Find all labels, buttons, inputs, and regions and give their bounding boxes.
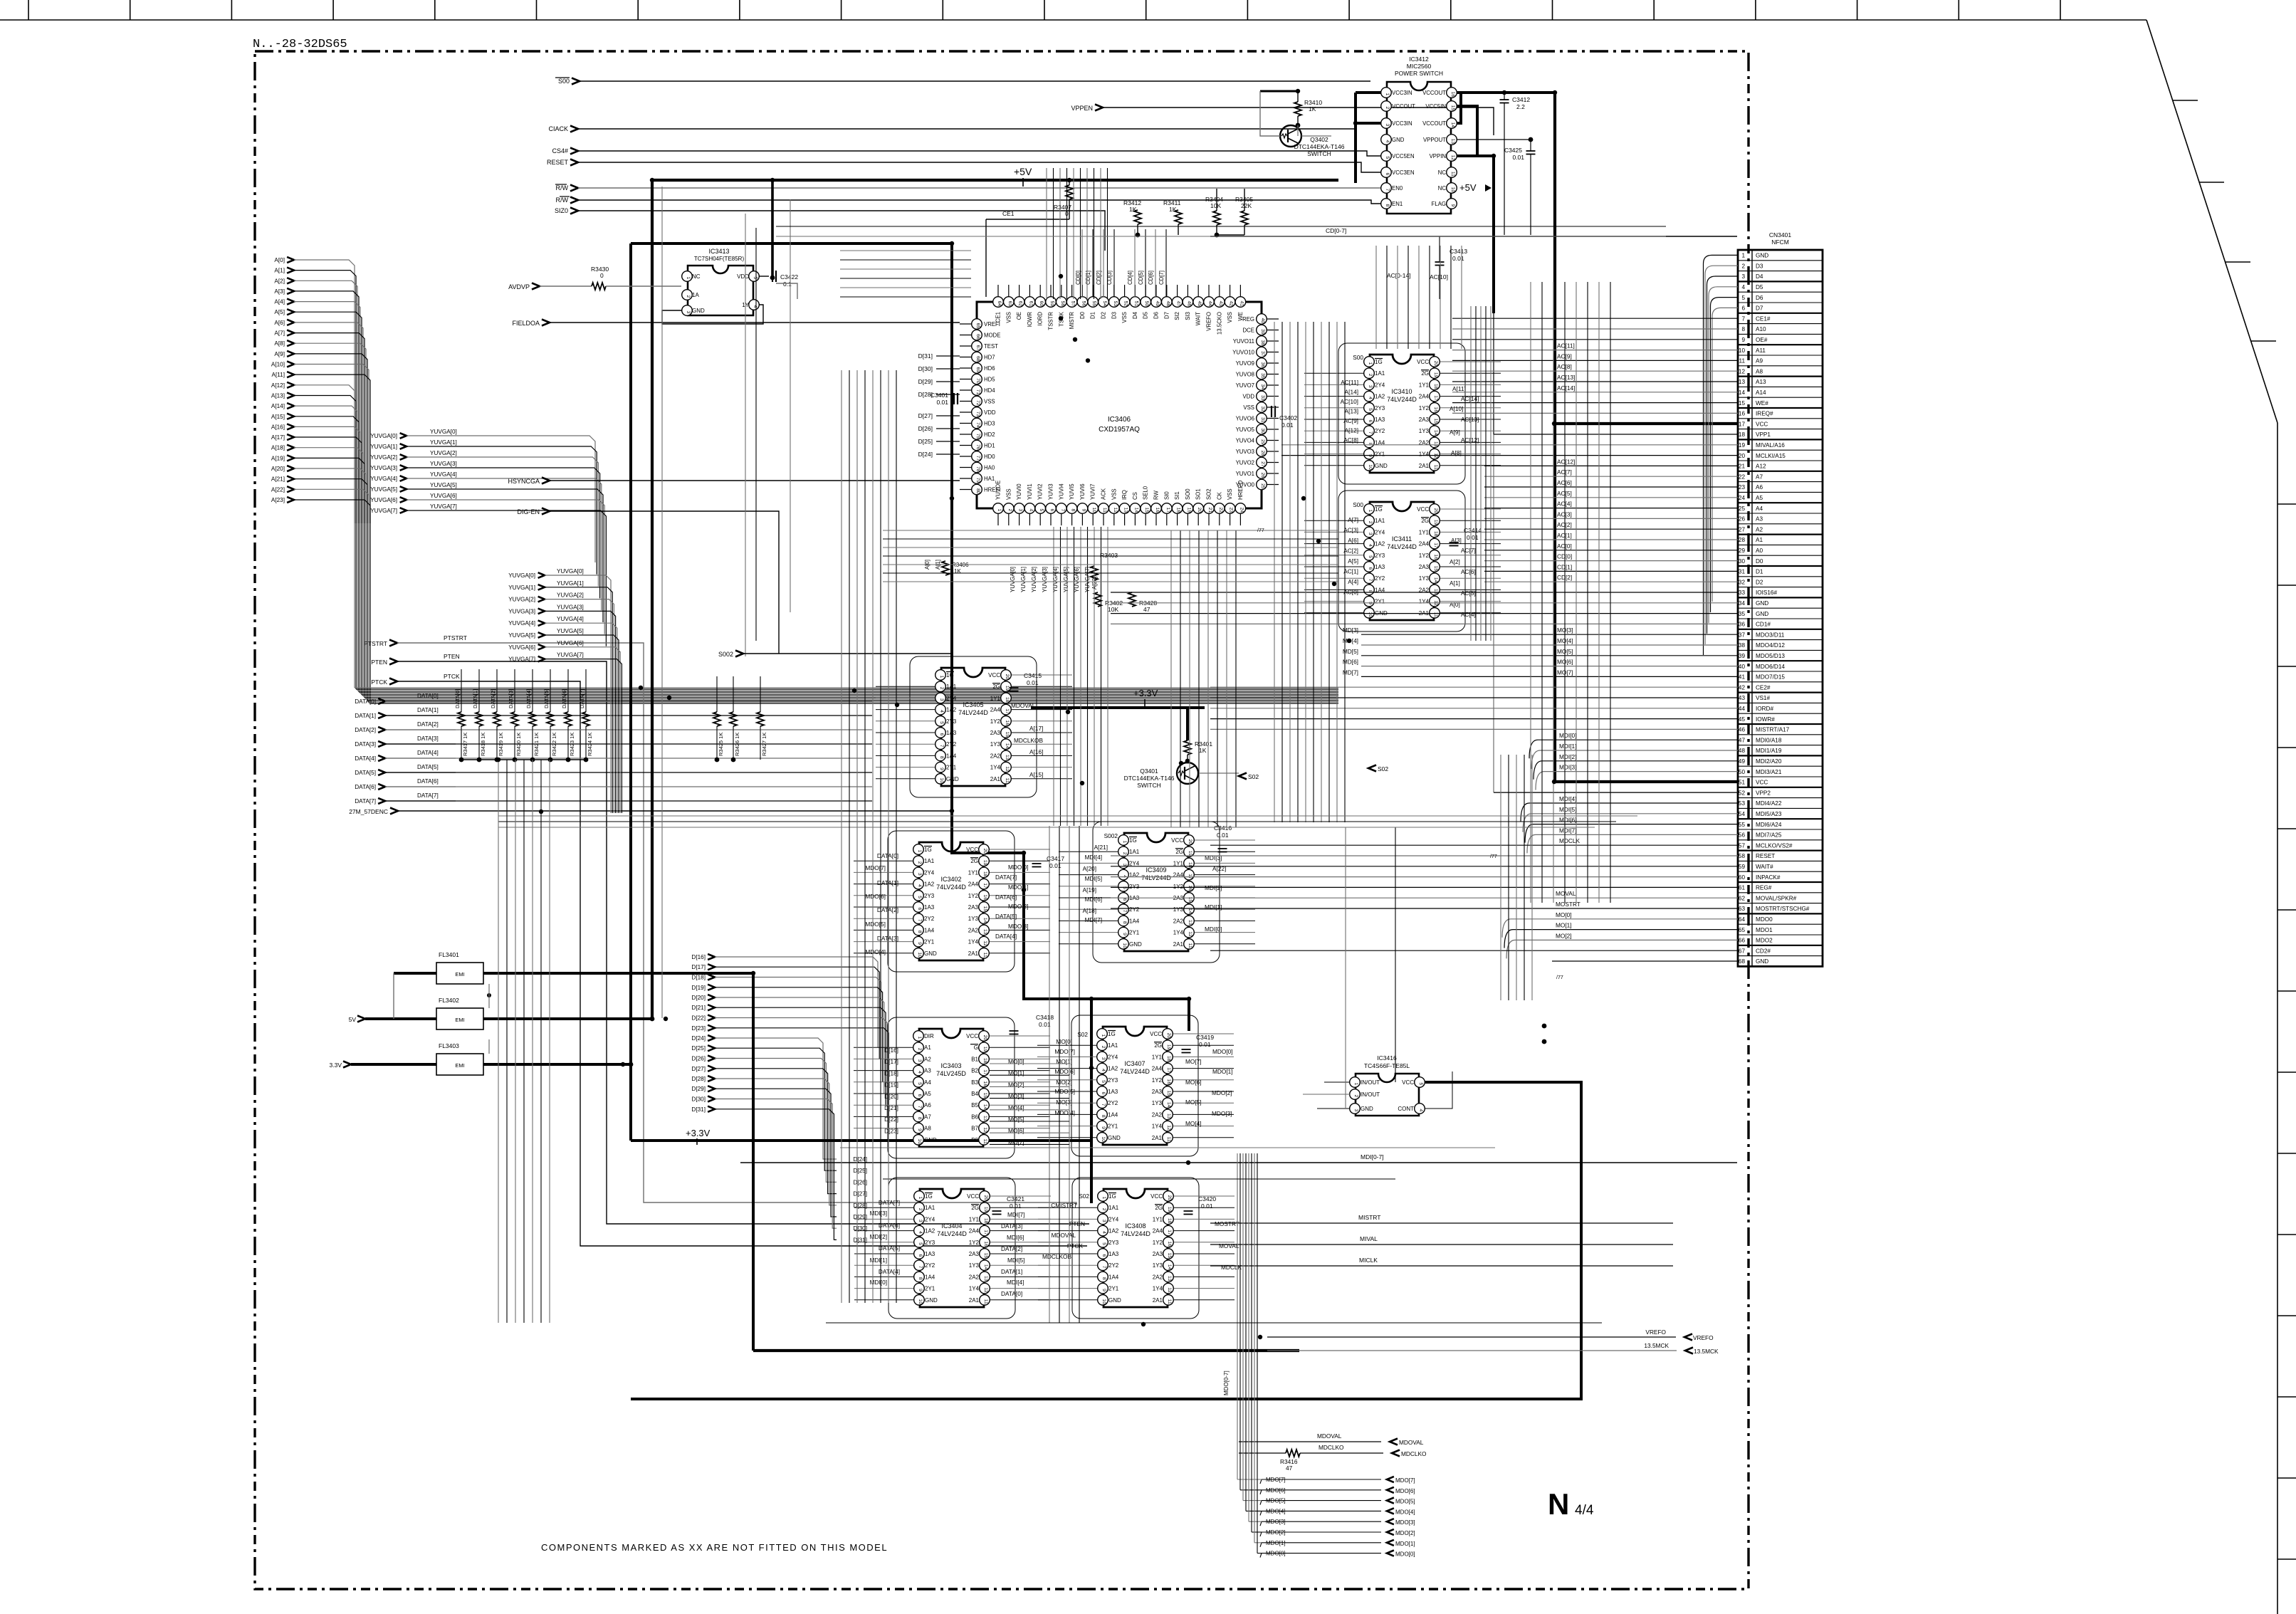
svg-text:11: 11	[1188, 943, 1192, 948]
svg-text:66: 66	[975, 334, 980, 340]
svg-text:13: 13	[1166, 1113, 1171, 1119]
svg-text:8: 8	[1071, 509, 1076, 512]
svg-text:YUVGA[6]: YUVGA[6]	[370, 497, 397, 503]
wire control verticals to IC3416	[1395, 827, 1396, 1082]
svg-text:VSS: VSS	[1111, 488, 1117, 500]
svg-text:1Y3: 1Y3	[1152, 1100, 1163, 1106]
svg-text:D[26]: D[26]	[918, 425, 933, 432]
wire +3.3V feed down to Q3401	[1031, 706, 1205, 709]
svg-text:AC[7]: AC[7]	[1461, 547, 1476, 554]
svg-text:1: 1	[917, 1037, 922, 1039]
svg-text:1: 1	[917, 850, 922, 853]
svg-text:R3424 1K: R3424 1K	[587, 733, 593, 756]
svg-text:AC[8]: AC[8]	[1343, 436, 1358, 444]
svg-text:13: 13	[1739, 379, 1746, 385]
svg-text:9: 9	[1450, 204, 1455, 207]
svg-text:MDCLKO: MDCLKO	[1401, 1450, 1427, 1457]
svg-text:1Y1: 1Y1	[1152, 1054, 1163, 1060]
svg-text:MDI[5]: MDI[5]	[1085, 875, 1102, 882]
svg-text:YUVGA[6]: YUVGA[6]	[430, 493, 457, 499]
svg-text:1G: 1G	[1129, 837, 1137, 844]
svg-text:19: 19	[982, 1047, 987, 1052]
svg-text:2Y3: 2Y3	[924, 893, 935, 899]
svg-text:1Y4: 1Y4	[1153, 1286, 1163, 1292]
svg-text:D[23]: D[23]	[691, 1025, 706, 1032]
svg-text:A9: A9	[1756, 358, 1763, 365]
svg-text:25: 25	[1739, 505, 1746, 512]
svg-text:A[0]: A[0]	[274, 257, 285, 263]
svg-text:AC[5]: AC[5]	[1557, 490, 1572, 497]
svg-text:YUVGA[0]: YUVGA[0]	[1010, 567, 1016, 592]
wire bus vertical bundle x1930-2060 right	[1376, 246, 1462, 349]
transistor Q3402 DTC144EKA-T146	[1280, 125, 1301, 147]
svg-text:2A2: 2A2	[968, 927, 979, 933]
svg-text:A7: A7	[924, 1113, 931, 1120]
svg-text:9: 9	[917, 1128, 922, 1131]
svg-text:WAIT#: WAIT#	[1756, 864, 1773, 870]
svg-text:2: 2	[1007, 509, 1012, 512]
svg-text:14: 14	[1005, 743, 1010, 749]
svg-text:70: 70	[975, 378, 980, 384]
svg-text:D7: D7	[1163, 312, 1170, 319]
svg-text:37: 37	[1739, 632, 1746, 638]
svg-text:SO0: SO0	[1185, 488, 1191, 500]
svg-text:IC3404: IC3404	[941, 1222, 962, 1230]
svg-text:MDO[4]: MDO[4]	[1054, 1109, 1075, 1116]
svg-text:58: 58	[1739, 853, 1746, 859]
svg-text:6: 6	[1741, 305, 1745, 312]
svg-text:MDO4/D12: MDO4/D12	[1756, 642, 1785, 649]
svg-text:5: 5	[917, 1082, 922, 1085]
svg-text:C3412: C3412	[1512, 96, 1530, 103]
svg-text:SI1: SI1	[1174, 491, 1180, 500]
svg-text:0.01: 0.01	[1452, 255, 1464, 262]
svg-text:IN/OUT: IN/OUT	[1361, 1079, 1380, 1086]
svg-text:6: 6	[1049, 509, 1054, 512]
svg-text:45: 45	[1739, 716, 1746, 723]
svg-text:MDI0/A18: MDI0/A18	[1756, 737, 1782, 743]
labels around IC3402	[865, 852, 1028, 955]
svg-text:10: 10	[1368, 612, 1373, 617]
svg-text:17: 17	[1165, 508, 1170, 513]
svg-text:YUVGA[3]: YUVGA[3]	[370, 465, 397, 471]
svg-text:MDO[7]: MDO[7]	[1395, 1477, 1415, 1484]
svg-text:5: 5	[1101, 1242, 1106, 1245]
svg-text:19: 19	[1005, 686, 1010, 691]
svg-text:5: 5	[1368, 555, 1373, 558]
svg-text:73: 73	[975, 412, 980, 417]
svg-text:1Y1: 1Y1	[1173, 860, 1184, 866]
svg-text:FL3402: FL3402	[439, 997, 459, 1004]
svg-text:VCC: VCC	[967, 1193, 979, 1200]
svg-text:43: 43	[1739, 695, 1746, 701]
svg-text:D5: D5	[1143, 311, 1149, 319]
svg-text:CD[1]: CD[1]	[1085, 271, 1091, 285]
svg-text:YUVGA[4]: YUVGA[4]	[508, 620, 535, 627]
svg-text:VSS: VSS	[1227, 488, 1233, 500]
svg-text:GND: GND	[946, 776, 959, 782]
wire thick box IC3406 feed	[631, 243, 1189, 1031]
svg-text:13: 13	[1188, 920, 1192, 926]
svg-text:12: 12	[1166, 1125, 1171, 1131]
svg-text:MDCLKO: MDCLKO	[1319, 1444, 1344, 1451]
svg-text:0.01: 0.01	[1201, 1202, 1213, 1210]
svg-text:MDI6/A24: MDI6/A24	[1756, 822, 1782, 828]
svg-text:C3413: C3413	[1450, 248, 1467, 255]
svg-text:5V: 5V	[349, 1016, 357, 1023]
svg-text:29: 29	[1739, 547, 1746, 554]
svg-text:2: 2	[939, 687, 944, 690]
buffer IC3411 74LV244D	[1304, 491, 1501, 632]
svg-text:2Y4: 2Y4	[925, 1216, 935, 1222]
svg-text:18: 18	[1166, 1056, 1171, 1062]
svg-text:DTC144EKA-T146: DTC144EKA-T146	[1124, 775, 1175, 782]
svg-text:7: 7	[1060, 509, 1065, 512]
svg-text:NC: NC	[1438, 185, 1447, 192]
svg-text:HSYNCGA: HSYNCGA	[508, 478, 540, 485]
svg-text:2A1: 2A1	[1173, 941, 1184, 948]
svg-text:16: 16	[1167, 1241, 1172, 1247]
svg-text:1A4: 1A4	[1108, 1111, 1118, 1118]
svg-text:MICLK: MICLK	[1359, 1257, 1378, 1264]
svg-text:MDCLK: MDCLK	[1559, 837, 1581, 844]
rotated bus labels CD[0]-CD[7] above IC3406	[1075, 271, 1165, 285]
wire bus vertical bundle x700-775 lower left	[498, 760, 550, 1323]
wire IC3413 VDD to +5V rail	[759, 276, 769, 277]
svg-text:IC3409: IC3409	[1146, 866, 1166, 874]
svg-text:MODE: MODE	[984, 332, 1000, 339]
wire bus DATA[0-7] horizontal	[385, 701, 872, 801]
svg-text:4: 4	[1101, 1231, 1106, 1234]
svg-text:1: 1	[1101, 1034, 1106, 1037]
svg-text:16: 16	[1166, 1079, 1171, 1084]
svg-text:62: 62	[1739, 895, 1746, 901]
svg-text:MDO[6]: MDO[6]	[1395, 1488, 1415, 1494]
svg-text:7: 7	[1101, 1266, 1106, 1269]
svg-text:D[21]: D[21]	[691, 1005, 706, 1011]
svg-text:1: 1	[1122, 841, 1127, 844]
svg-text:1Y2: 1Y2	[990, 718, 1001, 725]
svg-text:58: 58	[1060, 301, 1065, 307]
svg-text:22K: 22K	[1241, 202, 1252, 209]
svg-text:MIC2560: MIC2560	[1407, 63, 1432, 70]
svg-text:VCC3IN: VCC3IN	[1392, 90, 1412, 96]
svg-text:HREFI: HREFI	[984, 487, 1000, 493]
resistor R3401 1K	[1184, 740, 1191, 755]
svg-text:13.5CKO: 13.5CKO	[1216, 312, 1222, 335]
wire thick vertical +5V to table VCC rows	[1553, 93, 1556, 782]
svg-text:A[1]: A[1]	[274, 268, 285, 274]
svg-text:13: 13	[1433, 589, 1438, 594]
svg-text:D[25]: D[25]	[691, 1045, 706, 1052]
svg-text:MDI[4]: MDI[4]	[1007, 1279, 1024, 1286]
svg-text:14: 14	[1188, 908, 1192, 914]
wire 5V thick feed	[365, 1017, 436, 1020]
svg-text:2Y4: 2Y4	[1108, 1216, 1119, 1222]
svg-text:1A1: 1A1	[1375, 370, 1385, 377]
svg-text:DATA[5]: DATA[5]	[995, 913, 1017, 920]
svg-text:2: 2	[917, 1048, 922, 1051]
svg-text:9: 9	[1101, 1126, 1106, 1129]
svg-text:WAIT: WAIT	[1195, 312, 1202, 325]
svg-text:A8: A8	[1756, 368, 1763, 374]
bus labels D[31]-D[24] at IC3406 left	[918, 352, 960, 458]
svg-text:A1: A1	[1756, 537, 1763, 543]
svg-text:Q3402: Q3402	[1310, 136, 1328, 143]
page top ruler ticks	[28, 0, 2060, 20]
switch IC3416 TC4S66F-TE85L	[1303, 1054, 1452, 1116]
svg-text:VCCOUT: VCCOUT	[1422, 90, 1446, 96]
svg-text:MDO2: MDO2	[1756, 938, 1773, 944]
svg-text:A[17]: A[17]	[271, 434, 285, 441]
svg-text:C3414: C3414	[1464, 527, 1482, 534]
svg-text:75: 75	[975, 434, 980, 439]
svg-text:11: 11	[1433, 465, 1438, 470]
svg-text:R3425 1K: R3425 1K	[718, 733, 724, 756]
svg-text:D[24]: D[24]	[691, 1035, 706, 1042]
labels around IC3404	[870, 1199, 1025, 1297]
wire bus A[0-23] fan into vertical bus	[294, 260, 370, 523]
svg-text:1Y2: 1Y2	[969, 1240, 980, 1246]
svg-text:2A3: 2A3	[1419, 416, 1430, 423]
svg-text:80: 80	[975, 488, 980, 494]
svg-text:10K: 10K	[1210, 202, 1221, 209]
svg-text:DIG-EN: DIG-EN	[518, 508, 540, 515]
svg-text:8: 8	[918, 1277, 923, 1280]
svg-text:MDO6/D14: MDO6/D14	[1756, 664, 1785, 670]
svg-text:VCC3IN: VCC3IN	[1392, 120, 1412, 127]
svg-text:31: 31	[1260, 417, 1265, 423]
svg-text:YUVGA[5]: YUVGA[5]	[370, 486, 397, 493]
svg-text:AC[10]: AC[10]	[1341, 398, 1358, 405]
svg-text:20: 20	[1188, 839, 1192, 845]
svg-text:14: 14	[1133, 508, 1138, 513]
svg-text:VSS: VSS	[1005, 312, 1012, 323]
svg-text:1A3: 1A3	[1108, 1251, 1119, 1257]
svg-text:B4: B4	[971, 1091, 978, 1097]
svg-text:74LV244D: 74LV244D	[937, 1230, 967, 1237]
svg-text:2Y2: 2Y2	[924, 916, 935, 922]
svg-text:6: 6	[917, 1094, 922, 1097]
svg-text:YUVO11: YUVO11	[1233, 338, 1254, 345]
svg-text:MOSTRT/STSCHG#: MOSTRT/STSCHG#	[1756, 906, 1810, 912]
svg-text:MDI[6]: MDI[6]	[1007, 1234, 1024, 1241]
svg-text:2Y2: 2Y2	[1375, 575, 1385, 582]
svg-text:1Y4: 1Y4	[1419, 451, 1430, 458]
svg-text:2A4: 2A4	[968, 881, 979, 888]
svg-text:A[16]: A[16]	[1029, 748, 1043, 755]
svg-text:B1: B1	[971, 1056, 978, 1062]
svg-text:EN0: EN0	[1392, 185, 1403, 192]
svg-text:10: 10	[1368, 464, 1373, 470]
buffer IC3403 74LV245D	[854, 1017, 1050, 1158]
svg-text:MDI[7]: MDI[7]	[1559, 827, 1576, 834]
svg-text:18: 18	[982, 871, 987, 877]
svg-text:D[22]: D[22]	[691, 1015, 706, 1022]
svg-text:64: 64	[1739, 916, 1746, 923]
svg-text:6: 6	[918, 1254, 923, 1257]
svg-text:1A1: 1A1	[946, 683, 957, 690]
svg-text:7: 7	[917, 919, 922, 922]
svg-text:3: 3	[1385, 124, 1390, 127]
svg-text:2Y4: 2Y4	[1108, 1054, 1118, 1060]
wire thick vertical x886 down to 3.3V rail	[629, 243, 632, 1141]
capacitor C3425 0.01	[1526, 150, 1536, 152]
svg-text:77: 77	[975, 456, 980, 461]
svg-text:4: 4	[1368, 397, 1373, 399]
svg-text:17: 17	[1167, 1230, 1172, 1235]
svg-text:1: 1	[939, 676, 944, 678]
svg-text:17: 17	[983, 1230, 988, 1235]
svg-text:DATA[0]: DATA[0]	[1001, 1290, 1022, 1297]
svg-text:AC[6]: AC[6]	[1557, 479, 1572, 486]
svg-text:46: 46	[1186, 301, 1191, 307]
wires into connector rows 7-16 from buffer outputs	[1452, 318, 1738, 413]
wire bus vertical bundle x1180-1265 feeding DIP lefts	[842, 370, 896, 1303]
svg-text:YUVO6: YUVO6	[1236, 416, 1254, 422]
wire bus YUVGA to vertical run	[407, 436, 606, 646]
svg-text:28: 28	[1260, 451, 1265, 456]
svg-text:MDCLKOB: MDCLKOB	[1042, 1253, 1071, 1260]
svg-text:18: 18	[1176, 508, 1181, 513]
svg-text:1G: 1G	[1108, 1031, 1116, 1037]
resistor R3407 0	[1069, 180, 1070, 185]
svg-text:MDI[6]: MDI[6]	[1085, 896, 1102, 903]
svg-text:1Y4: 1Y4	[1152, 1123, 1163, 1130]
svg-text:6: 6	[1101, 1254, 1106, 1257]
svg-text:MO[2]: MO[2]	[1056, 1079, 1072, 1086]
svg-text:1K: 1K	[1199, 747, 1207, 754]
svg-text:INPACK#: INPACK#	[1756, 874, 1781, 881]
svg-text:PTCK: PTCK	[371, 678, 387, 686]
wire R3404 R3405 common	[1216, 225, 1217, 235]
labels around IC3411	[1343, 501, 1476, 618]
svg-text:D1: D1	[1756, 569, 1763, 575]
ticks on diagonal edge	[2173, 100, 2276, 341]
svg-text:20: 20	[982, 1035, 987, 1041]
svg-text:VPP2: VPP2	[1756, 790, 1771, 796]
svg-text:4: 4	[1741, 284, 1745, 290]
svg-text:7: 7	[1741, 315, 1745, 322]
svg-text:2A1: 2A1	[968, 950, 979, 957]
svg-text:MDI[0]: MDI[0]	[1559, 732, 1576, 739]
svg-text:D[29]: D[29]	[691, 1086, 706, 1092]
resistor array R3417-R3424 1K pull-downs	[454, 669, 593, 762]
svg-text:29: 29	[1260, 439, 1265, 445]
svg-text:2Y3: 2Y3	[1108, 1240, 1119, 1246]
svg-text:VCC: VCC	[1417, 506, 1429, 513]
svg-text:18: 18	[1188, 862, 1192, 868]
svg-text:1Y4: 1Y4	[990, 765, 1001, 771]
svg-text:11: 11	[1102, 508, 1107, 513]
svg-text:59: 59	[1049, 301, 1054, 307]
svg-text:1: 1	[1353, 1083, 1358, 1086]
svg-text:2Y4: 2Y4	[1375, 382, 1385, 388]
svg-text:YUVGA[3]: YUVGA[3]	[430, 461, 457, 467]
svg-text:17: 17	[1005, 708, 1010, 714]
svg-text:MISTRT: MISTRT	[1358, 1214, 1380, 1221]
svg-text:57: 57	[1739, 842, 1746, 849]
svg-text:2A2: 2A2	[1152, 1111, 1163, 1118]
svg-text:D[27]: D[27]	[691, 1066, 706, 1072]
svg-text:10K: 10K	[1108, 606, 1118, 613]
buffer IC3405 74LV244D	[876, 656, 1072, 797]
svg-text:A[10]: A[10]	[1450, 405, 1463, 412]
svg-text:MDO[4]: MDO[4]	[865, 948, 886, 955]
svg-text:4: 4	[1368, 544, 1373, 547]
svg-text:A12: A12	[1756, 463, 1766, 470]
svg-text:S02: S02	[1079, 1193, 1089, 1200]
svg-text:IC3405: IC3405	[963, 701, 983, 708]
schematic dash-dot border frame	[255, 51, 1749, 1589]
svg-text:AC[10]: AC[10]	[1430, 273, 1448, 281]
svg-text:RESET: RESET	[1756, 853, 1775, 859]
svg-text:MDO[1]: MDO[1]	[1212, 1068, 1233, 1075]
svg-text:39: 39	[1739, 653, 1746, 659]
svg-text:MIVAL/A16: MIVAL/A16	[1756, 442, 1785, 449]
svg-text:14: 14	[983, 1264, 988, 1270]
svg-text:0.01: 0.01	[1512, 154, 1524, 161]
svg-text:A6: A6	[924, 1102, 931, 1109]
svg-text:DATA[4]: DATA[4]	[995, 933, 1017, 940]
svg-text:YUVGA[0]: YUVGA[0]	[370, 433, 397, 439]
svg-text:A1: A1	[924, 1044, 931, 1051]
wire DIG-EN	[550, 511, 779, 654]
svg-text:1Y2: 1Y2	[1173, 884, 1184, 890]
svg-text:MDOVAL: MDOVAL	[1399, 1439, 1424, 1446]
svg-text:MDO[2]: MDO[2]	[1212, 1089, 1232, 1096]
svg-text:IN/OUT: IN/OUT	[1361, 1091, 1380, 1098]
op-amp IC3413 TC7SH04F inverter	[682, 248, 760, 315]
buffer IC3410 74LV244D	[1304, 343, 1501, 484]
svg-text:A[21]: A[21]	[1094, 844, 1108, 851]
svg-text:S02: S02	[1248, 773, 1259, 780]
svg-text:22: 22	[1739, 473, 1746, 480]
svg-text:MDI[0]: MDI[0]	[1205, 926, 1222, 933]
resistor R3428 47	[1128, 592, 1136, 607]
svg-text:46: 46	[1739, 727, 1746, 733]
svg-text:1Y1: 1Y1	[1153, 1216, 1163, 1222]
svg-text:MDO[5]: MDO[5]	[1054, 1088, 1075, 1095]
node S02 output arrow right side	[1368, 765, 1376, 772]
svg-text:60: 60	[1039, 301, 1044, 307]
svg-text:DATA[3]: DATA[3]	[877, 935, 898, 942]
svg-text:18: 18	[1739, 431, 1746, 438]
wire bus horizontal corridor y1150-1165	[498, 816, 1637, 827]
svg-text:A[16]: A[16]	[271, 424, 285, 430]
svg-text:MO[7]: MO[7]	[1185, 1058, 1202, 1065]
svg-text:16: 16	[1433, 407, 1438, 412]
svg-text:AC[7]: AC[7]	[1557, 468, 1572, 476]
resistor R3403 10K	[1091, 566, 1098, 580]
svg-text:D[25]: D[25]	[918, 438, 933, 445]
svg-text:A11: A11	[1756, 347, 1766, 354]
svg-text:63: 63	[1739, 906, 1746, 912]
wire AVDVP through R3430	[540, 285, 592, 287]
svg-text:GND: GND	[1129, 941, 1142, 948]
svg-text:33: 33	[1260, 395, 1265, 401]
svg-text:A14: A14	[1756, 389, 1766, 396]
svg-text:DATA[7]: DATA[7]	[995, 874, 1017, 881]
wire RESET	[578, 162, 1381, 172]
svg-text:VCC: VCC	[1150, 1193, 1163, 1200]
svg-text:C3416: C3416	[1214, 824, 1232, 832]
svg-text:2A4: 2A4	[1152, 1066, 1163, 1072]
wire FL3401 thick feed	[394, 972, 436, 975]
svg-text:7: 7	[917, 1106, 922, 1109]
svg-text:9: 9	[918, 1289, 923, 1291]
svg-text:D4: D4	[1132, 311, 1138, 319]
